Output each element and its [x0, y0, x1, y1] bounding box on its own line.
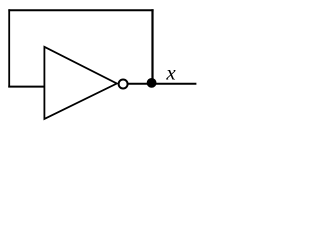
svg-text:x: x: [165, 60, 176, 84]
inverter U1 output bubble: [119, 80, 128, 89]
wire: output segment: [128, 83, 196, 85]
wire: left vertical feedback segment: [8, 9, 10, 87]
junction dot at node x: [147, 78, 157, 88]
wire: inverter input segment: [8, 86, 45, 88]
inverter U1 triangle: [44, 47, 116, 119]
wire: top feedback segment: [8, 9, 153, 11]
wire: right vertical feedback segment: [151, 9, 153, 82]
node label x: [165, 60, 176, 84]
